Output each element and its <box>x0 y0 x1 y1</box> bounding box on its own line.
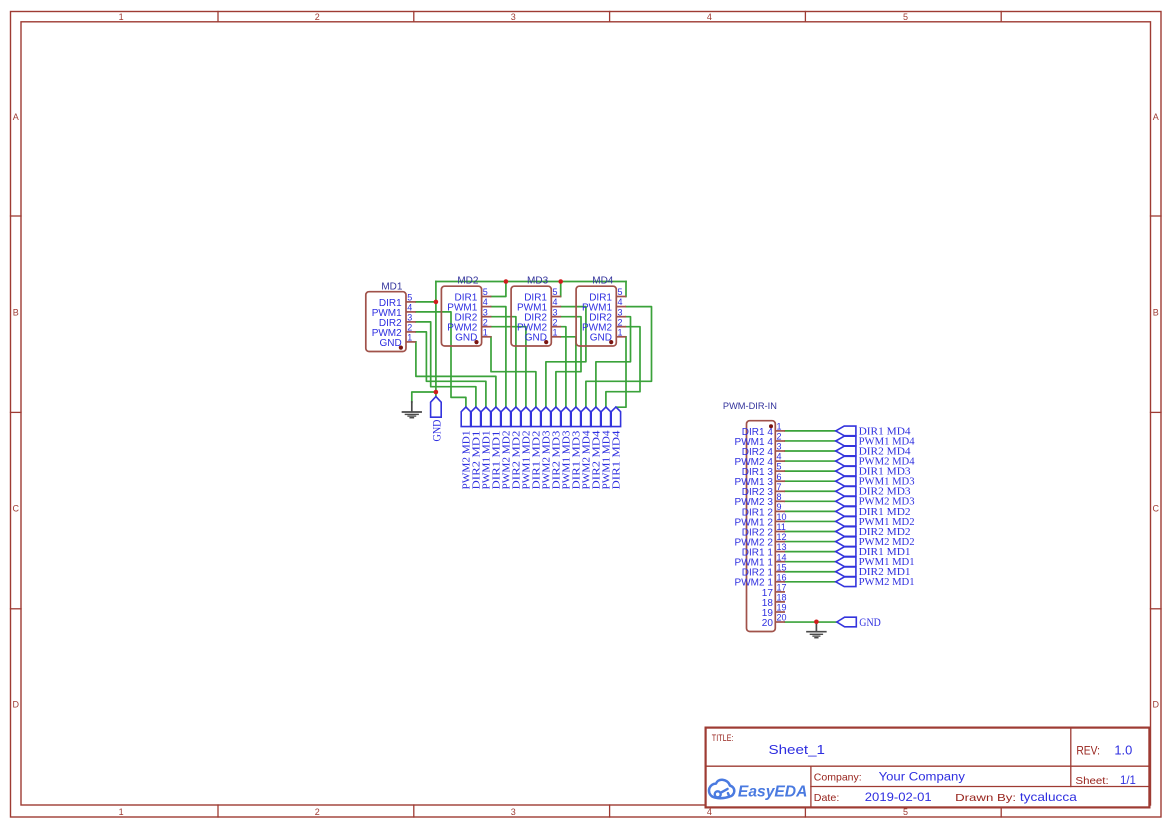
net flag DIR2 MD3 <box>551 407 563 490</box>
net flag DIR2 MD4 (right) <box>836 446 912 457</box>
svg-text:5: 5 <box>618 287 623 297</box>
svg-text:2019-02-01: 2019-02-01 <box>865 790 932 804</box>
wire MD3 pin5 to rail <box>560 282 562 297</box>
net flag PWM2 MD4 (right) <box>836 456 916 467</box>
net flag DIR1 MD2 (right) <box>836 507 911 518</box>
svg-text:GND: GND <box>525 333 547 344</box>
svg-text:18: 18 <box>777 593 787 603</box>
net flag PWM1 MD2 (right) <box>836 517 915 528</box>
svg-text:GND: GND <box>455 333 477 344</box>
svg-text:5: 5 <box>553 287 558 297</box>
svg-text:GND: GND <box>379 338 401 349</box>
svg-text:B: B <box>13 307 19 317</box>
net flag PWM2 MD1 (right) <box>836 577 915 588</box>
wire J1 pin1 to flag DIR1 MD4 <box>785 430 836 432</box>
svg-text:1/1: 1/1 <box>1120 773 1136 787</box>
svg-text:2: 2 <box>553 317 558 327</box>
svg-text:4: 4 <box>707 12 712 22</box>
svg-text:9: 9 <box>777 502 782 512</box>
svg-text:GND: GND <box>429 419 443 441</box>
wire J1 pin20 to GND flag <box>785 621 837 623</box>
svg-text:C: C <box>1153 503 1160 513</box>
net flag PWM1 MD2 <box>521 407 533 490</box>
svg-text:1: 1 <box>119 807 124 817</box>
wire MD4 pin5 to rail <box>625 282 627 297</box>
net flag DIR1 MD1 (right) <box>836 547 911 558</box>
svg-text:1.0: 1.0 <box>1114 744 1132 758</box>
wire MD2 pin4 to flag PWM2 MD2 <box>491 307 506 407</box>
connector MD3 <box>511 276 561 346</box>
junction MD2 pin5 / rail <box>504 279 509 284</box>
wire J1 pin2 to flag PWM1 MD4 <box>785 440 836 442</box>
svg-text:2: 2 <box>618 317 623 327</box>
svg-text:PWM-DIR-IN: PWM-DIR-IN <box>723 401 777 412</box>
wire MD3 pin2 to flag PWM1 MD3 <box>561 327 566 407</box>
svg-text:11: 11 <box>777 522 786 532</box>
svg-text:4: 4 <box>618 297 623 307</box>
svg-text:5: 5 <box>483 287 488 297</box>
svg-text:GND: GND <box>859 615 881 629</box>
svg-text:8: 8 <box>777 492 782 502</box>
wire J1 pin7 to flag DIR2 MD3 <box>785 490 836 492</box>
EasyEDA logo <box>709 780 807 801</box>
net flag DIR1 MD4 (right) <box>836 426 912 437</box>
svg-text:C: C <box>12 503 19 513</box>
svg-text:20: 20 <box>777 613 787 623</box>
svg-text:PWM2 MD1: PWM2 MD1 <box>859 577 915 588</box>
junction MD1 pin5 / GND rail <box>434 300 439 305</box>
wire MD3 pin3 to flag DIR2 MD3 <box>556 317 581 407</box>
wire MD1 pin2 to flag PWM1 MD1 <box>416 332 486 407</box>
wire J1 pin10 to flag PWM1 MD2 <box>785 520 836 522</box>
junction GND node <box>434 390 439 395</box>
svg-text:2: 2 <box>407 323 412 333</box>
net flag PWM2 MD4 <box>581 407 593 490</box>
net flag DIR2 MD2 (right) <box>836 527 911 538</box>
net flag PWM1 MD4 (right) <box>836 436 916 447</box>
net flag DIR2 MD4 <box>591 407 603 490</box>
svg-text:GND: GND <box>590 333 612 344</box>
wire MD2 pin3 to flag DIR2 MD2 <box>491 317 516 407</box>
svg-text:3: 3 <box>511 807 516 817</box>
wire MD3 pin4 to flag PWM2 MD3 <box>546 307 586 407</box>
net flag DIR2 MD1 (right) <box>836 567 911 578</box>
svg-text:19: 19 <box>777 603 787 613</box>
svg-text:16: 16 <box>777 572 787 582</box>
svg-text:1: 1 <box>407 333 412 343</box>
wire J1 pin3 to flag DIR2 MD4 <box>785 450 836 452</box>
junction MD3 pin5 / rail <box>558 279 563 284</box>
net flag PWM2 MD3 <box>541 407 553 490</box>
wire GND top rail <box>436 281 626 283</box>
svg-text:TITLE:: TITLE: <box>712 733 734 743</box>
wire J1 pin4 to flag PWM2 MD4 <box>785 460 836 462</box>
net flag PWM1 MD3 <box>561 407 573 490</box>
svg-text:2: 2 <box>315 807 320 817</box>
connector MD2 <box>441 276 491 346</box>
svg-text:EasyEDA: EasyEDA <box>738 783 808 800</box>
connector MD1 <box>366 281 416 351</box>
svg-text:5: 5 <box>407 293 412 303</box>
wire MD2 pin2 to flag PWM1 MD2 <box>491 327 526 407</box>
svg-text:7: 7 <box>777 482 782 492</box>
wire J1 pin12 to flag PWM2 MD2 <box>785 541 836 543</box>
wire MD4 pin4 to flag PWM2 MD4 <box>586 307 652 407</box>
wire J1 pin16 to flag PWM2 MD1 <box>785 581 836 583</box>
wire J1 pin9 to flag DIR1 MD2 <box>785 510 836 512</box>
wire MD2 pin1 to flag DIR1 MD2 <box>491 337 536 407</box>
ruler numbers bottom <box>119 807 908 817</box>
svg-text:2: 2 <box>483 317 488 327</box>
title block texts <box>712 733 1136 804</box>
net flag DIR1 MD3 (right) <box>836 466 911 477</box>
wire GND rail vertical <box>435 282 437 393</box>
connector PWM-DIR-IN <box>723 401 787 631</box>
svg-text:B: B <box>1153 307 1159 317</box>
wire MD4 pin1 to flag DIR1 MD4 <box>616 337 626 407</box>
svg-text:13: 13 <box>777 542 787 552</box>
svg-text:A: A <box>13 112 19 122</box>
svg-text:MD2: MD2 <box>457 276 479 287</box>
wire J1 pin13 to flag DIR1 MD1 <box>785 551 836 553</box>
svg-text:3: 3 <box>618 307 623 317</box>
svg-text:2: 2 <box>315 12 320 22</box>
svg-text:1: 1 <box>618 327 623 337</box>
svg-text:Date:: Date: <box>814 792 840 804</box>
net flag PWM2 MD3 (right) <box>836 497 915 508</box>
net flag PWM2 MD2 (right) <box>836 537 915 548</box>
svg-text:MD4: MD4 <box>592 276 614 287</box>
svg-text:1: 1 <box>119 12 124 22</box>
ruler numbers top <box>119 12 908 22</box>
net flag DIR1 MD1 <box>491 407 503 490</box>
net flag PWM1 MD3 (right) <box>836 476 915 487</box>
wire MD1 pin3 to flag DIR2 MD1 <box>416 322 476 407</box>
net flag PWM2 MD2 <box>501 407 513 490</box>
net flag DIR2 MD2 <box>511 407 523 490</box>
svg-text:1: 1 <box>483 327 488 337</box>
svg-text:3: 3 <box>407 313 412 323</box>
svg-text:DIR1 MD4: DIR1 MD4 <box>611 430 623 490</box>
svg-text:17: 17 <box>777 583 787 593</box>
svg-text:15: 15 <box>777 562 787 572</box>
svg-text:12: 12 <box>777 532 787 542</box>
svg-text:4: 4 <box>407 303 412 313</box>
svg-text:Sheet_1: Sheet_1 <box>769 742 826 757</box>
ground symbol left <box>403 402 422 418</box>
svg-text:Drawn By:: Drawn By: <box>955 792 1016 804</box>
svg-text:3: 3 <box>483 307 488 317</box>
svg-text:Company:: Company: <box>814 772 862 784</box>
svg-text:6: 6 <box>777 472 782 482</box>
svg-text:1: 1 <box>553 327 558 337</box>
ruler letters left <box>12 112 19 710</box>
net flag PWM2 MD1 <box>461 407 473 490</box>
net flag DIR1 MD4 <box>611 407 623 490</box>
net flag GND right <box>837 615 881 629</box>
wire MD4 pin2 to flag PWM1 MD4 <box>606 327 640 407</box>
net flag PWM1 MD1 <box>481 407 493 490</box>
wire MD3 pin1 to flag DIR1 MD3 <box>561 337 576 407</box>
wire GND to earth symbol <box>412 392 436 402</box>
net flag DIR1 MD2 <box>531 407 543 490</box>
svg-text:4: 4 <box>777 452 782 462</box>
svg-text:tycalucca: tycalucca <box>1020 790 1077 804</box>
svg-text:MD3: MD3 <box>527 276 549 287</box>
net flag DIR1 MD3 <box>571 407 583 490</box>
svg-text:A: A <box>1153 112 1159 122</box>
svg-text:10: 10 <box>777 512 787 522</box>
svg-text:20: 20 <box>762 618 774 629</box>
net flag DIR2 MD3 (right) <box>836 487 911 498</box>
svg-text:3: 3 <box>777 442 782 452</box>
wire MD1 pin1 to flag DIR1 MD1 <box>416 342 496 407</box>
svg-text:14: 14 <box>777 552 787 562</box>
junction J1 pin20 / GND <box>814 620 819 625</box>
wire J1 pin11 to flag DIR2 MD2 <box>785 531 836 533</box>
svg-text:5: 5 <box>903 12 908 22</box>
wire J1 pin8 to flag PWM2 MD3 <box>785 500 836 502</box>
svg-text:D: D <box>12 699 19 709</box>
svg-text:Your Company: Your Company <box>879 772 966 784</box>
svg-text:REV:: REV: <box>1076 746 1100 758</box>
svg-text:4: 4 <box>553 297 558 307</box>
net flag PWM1 MD4 <box>601 407 613 490</box>
net flag DIR2 MD1 <box>471 407 483 490</box>
svg-text:3: 3 <box>553 307 558 317</box>
svg-text:D: D <box>1153 699 1160 709</box>
net flag PWM1 MD1 (right) <box>836 557 915 568</box>
wire J1 pin15 to flag DIR2 MD1 <box>785 571 836 573</box>
svg-text:3: 3 <box>511 12 516 22</box>
wire MD1 pin5 to rail <box>416 301 436 303</box>
wire MD4 pin3 to flag DIR2 MD4 <box>596 317 631 407</box>
title block <box>706 728 1150 808</box>
wire MD2 pin5 to rail <box>491 282 506 297</box>
wire J1 pin6 to flag PWM1 MD3 <box>785 480 836 482</box>
svg-text:2: 2 <box>777 432 782 442</box>
connector MD4 <box>576 276 626 346</box>
wire J1 pin5 to flag DIR1 MD3 <box>785 470 836 472</box>
wire MD1 pin4 to flag PWM2 MD1 <box>416 312 466 407</box>
svg-text:5: 5 <box>777 462 782 472</box>
svg-text:1: 1 <box>777 422 782 432</box>
wire GND to GND flag <box>435 392 437 397</box>
svg-text:4: 4 <box>483 297 488 307</box>
svg-text:Sheet:: Sheet: <box>1075 775 1108 787</box>
svg-text:MD1: MD1 <box>381 281 403 292</box>
wire J1 pin14 to flag PWM1 MD1 <box>785 561 836 563</box>
ruler letters right <box>1153 112 1160 710</box>
net flag GND left <box>429 397 443 442</box>
ground symbol right <box>807 624 826 638</box>
